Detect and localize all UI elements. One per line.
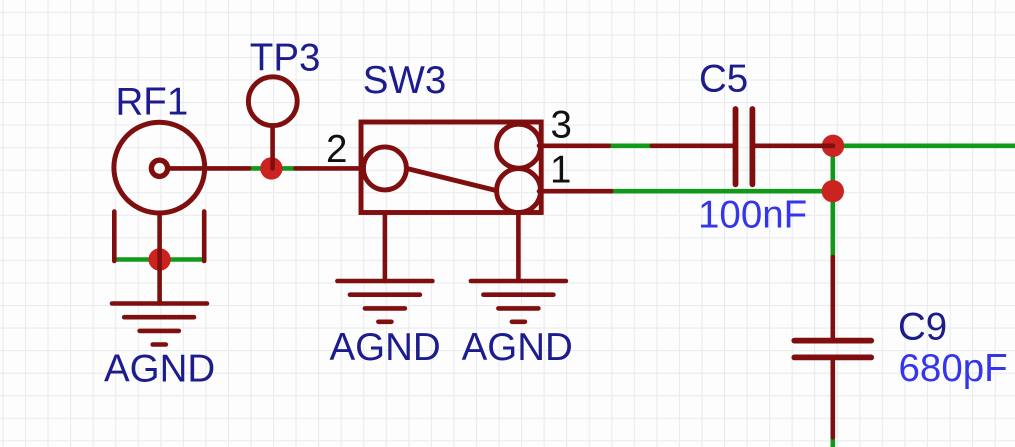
- pin: SW3 pin 1 lead: [539, 189, 611, 194]
- svg-text:C9: C9: [898, 305, 947, 348]
- svg-text:RF1: RF1: [116, 81, 189, 124]
- ground AGND under SW3 right: [471, 281, 566, 322]
- pin: SW3 bottom pin right: [516, 213, 521, 281]
- pin: SW3 pin 2 lead: [296, 166, 364, 171]
- svg-text:2: 2: [326, 128, 347, 171]
- svg-text:1: 1: [550, 149, 571, 192]
- pin: SW3 bottom pin left: [383, 213, 388, 281]
- ground AGND under RF1: [112, 304, 207, 345]
- pin: SW3 pin 3 lead: [539, 144, 609, 149]
- ground AGND under SW3 left: [337, 281, 432, 322]
- capacitor C5 left plate: [733, 109, 739, 184]
- svg-text:AGND: AGND: [462, 326, 573, 369]
- switch SW3 body box: [361, 122, 541, 213]
- pin: RF1 shield stub right: [202, 212, 207, 262]
- SW3 throw contact circle top (pin 3): [497, 124, 541, 168]
- junction dot top right (C5 output): [822, 135, 844, 157]
- pin: C5 left lead: [652, 144, 733, 149]
- connector RF1 body circle: [114, 122, 205, 213]
- wire: green vertical below C9 to bottom edge: [830, 437, 835, 447]
- wire: green net from top junction to right edge: [833, 144, 1015, 149]
- svg-text:C5: C5: [699, 58, 748, 101]
- wire: green vertical from bottom junction to C9: [830, 191, 835, 257]
- pin: C5 right lead: [755, 144, 833, 149]
- junction dot at TP3 tap: [260, 157, 282, 179]
- svg-text:3: 3: [551, 104, 572, 147]
- svg-text:680pF: 680pF: [899, 347, 1008, 390]
- capacitor C9 top plate: [794, 338, 871, 344]
- wire: green shield strap under RF1: [114, 257, 205, 262]
- capacitor C9 bottom plate: [794, 354, 871, 360]
- junction dot bottom right (pin1 net to C9): [822, 180, 844, 202]
- SW3 throw contact circle bottom (pin 1): [497, 169, 541, 213]
- pin: RF1 shield stub left: [112, 212, 117, 262]
- pin: C9 top lead: [830, 257, 835, 338]
- pin: C9 bottom lead: [830, 360, 835, 437]
- wire: green net from SW3 pin 3 toward C5: [609, 144, 652, 149]
- svg-text:AGND: AGND: [330, 326, 441, 369]
- wire: green net segment between RF1 pin and SW3 pin 2: [249, 166, 296, 171]
- svg-text:TP3: TP3: [250, 36, 321, 79]
- wire: green net from SW3 pin 1 to junction: [611, 189, 833, 194]
- svg-text:100nF: 100nF: [698, 193, 807, 236]
- wire: RF1 shield tail to ground: [157, 213, 162, 304]
- connector RF1 center contact: [151, 160, 167, 176]
- test point TP3 circle: [248, 77, 297, 126]
- pin: TP3 pin down to junction: [270, 126, 275, 169]
- wire: green vertical between junctions: [830, 146, 835, 191]
- svg-text:AGND: AGND: [104, 348, 215, 391]
- capacitor C5 right plate: [750, 109, 756, 184]
- SW3 pole contact circle: [363, 147, 406, 190]
- pin: RF1 center pin: [168, 166, 249, 171]
- svg-text:SW3: SW3: [363, 59, 446, 102]
- junction dot on RF1 shield strap: [148, 248, 170, 270]
- SW3 switch arm: [406, 168, 496, 190]
